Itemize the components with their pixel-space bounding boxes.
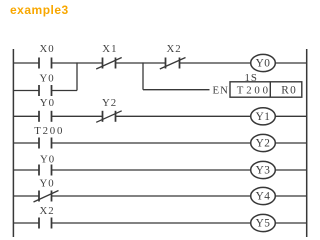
svg-text:EN: EN [213, 85, 229, 97]
svg-text:1S: 1S [245, 72, 258, 84]
wire coil Y0 to rail [275, 62, 306, 64]
svg-text:Y0: Y0 [40, 153, 55, 165]
contact Y0 (NO) rung2 [39, 111, 52, 122]
contact X1 (NC) [103, 58, 116, 69]
wire rung2 rail to Y0 [13, 115, 39, 117]
svg-text:T200: T200 [34, 125, 64, 137]
svg-text:X0: X0 [40, 43, 55, 55]
wire T200 to coil Y2 [52, 142, 251, 144]
svg-text:X2: X2 [40, 205, 55, 217]
svg-text:Y2: Y2 [256, 138, 271, 150]
svg-text:R0: R0 [281, 85, 297, 97]
contact T200 (NO) [39, 138, 52, 149]
contact X2 (NC) [166, 58, 180, 69]
wire branch rail to Y0 contact [13, 90, 39, 92]
svg-text:Y0: Y0 [40, 178, 55, 190]
svg-text:X2: X2 [167, 43, 182, 55]
svg-text:Y0: Y0 [40, 73, 55, 85]
wire coil Y4 to rail [275, 195, 306, 197]
wire timer tap to EN [143, 89, 210, 91]
svg-text:Y0: Y0 [40, 97, 55, 109]
wire X2 to coil Y0 [180, 62, 251, 64]
wire X0 to X1 [52, 62, 103, 64]
wire coil Y5 to rail [275, 222, 306, 224]
svg-text:Y4: Y4 [256, 190, 271, 202]
svg-text:Y5: Y5 [256, 218, 271, 230]
left power rail [12, 49, 14, 237]
wire X2 to coil Y5 [52, 222, 251, 224]
right power rail [306, 49, 308, 237]
svg-text:X1: X1 [102, 43, 117, 55]
wire rung6 rail to X2 [13, 222, 39, 224]
svg-text:example3: example3 [10, 3, 69, 17]
coil Y4 [251, 187, 276, 204]
svg-text:Y1: Y1 [256, 111, 271, 123]
wire coil Y1 to rail [275, 115, 306, 117]
wire Y0 to Y2 [52, 115, 103, 117]
contact Y0 (NO) parallel branch [39, 85, 52, 96]
contact X0 (NO) [39, 58, 52, 69]
coil Y1 [251, 108, 276, 125]
coil Y3 [251, 161, 276, 178]
coil Y2 [251, 134, 276, 151]
wire coil Y2 to rail [275, 142, 306, 144]
wire Y0 to coil Y3 [52, 169, 251, 171]
wire coil Y3 to rail [275, 169, 306, 171]
coil Y0 [251, 54, 276, 71]
svg-text:Y2: Y2 [102, 97, 117, 109]
wire X1 to X2 [116, 62, 166, 64]
wire rung5 rail to Y0 [13, 195, 39, 197]
svg-text:Y0: Y0 [256, 58, 271, 70]
contact X2 (NO) rung6 [39, 218, 52, 229]
wire Y0 to coil Y4 [52, 195, 251, 197]
wire Y2 to coil Y1 [116, 115, 251, 117]
wire branch junction vertical [76, 62, 78, 90]
contact Y2 (NC) [103, 111, 116, 122]
svg-text:Y3: Y3 [256, 165, 271, 177]
wire timer tap vertical [142, 62, 144, 89]
contact Y0 (NC) rung5 [39, 191, 52, 202]
wire Y0 branch to junction [52, 90, 78, 92]
wire rung4 rail to Y0 [13, 169, 39, 171]
contact Y0 (NO) rung4 [39, 165, 52, 176]
wire rung3 rail to T200 [13, 142, 39, 144]
coil Y5 [251, 214, 276, 231]
timer function block T200 [230, 82, 302, 97]
wire rung1 rail to X0 [13, 62, 39, 64]
svg-text:T200: T200 [237, 85, 271, 97]
